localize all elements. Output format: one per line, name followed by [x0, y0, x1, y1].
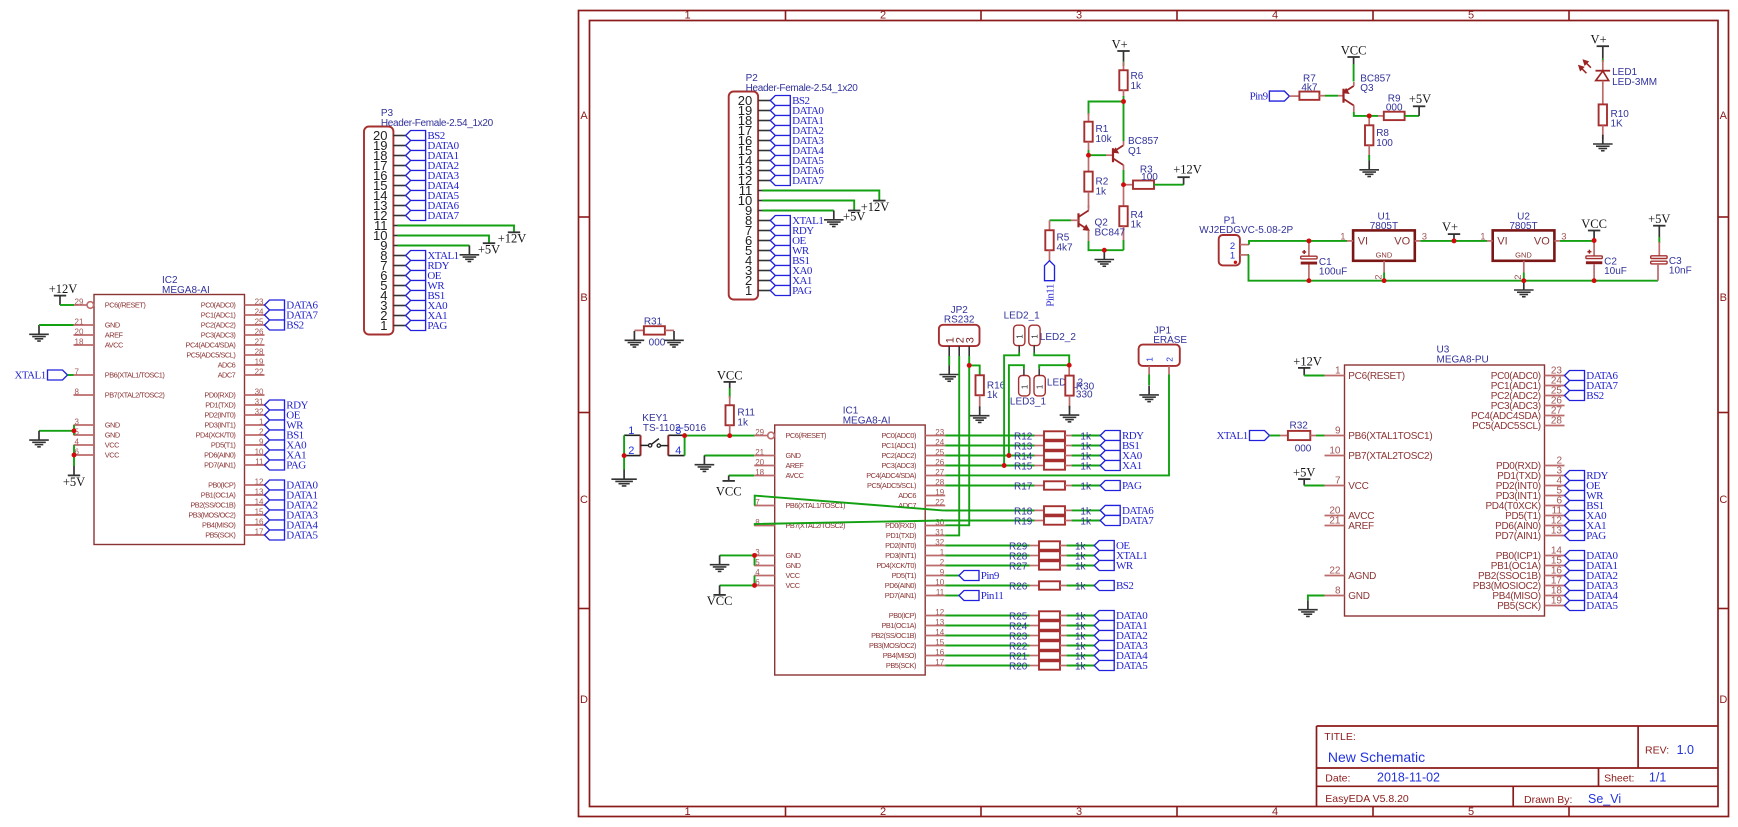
svg-text:2: 2 [940, 558, 945, 567]
wire R14 to flag [1072, 455, 1101, 457]
svg-text:PB4(MISO): PB4(MISO) [202, 521, 235, 530]
power V+ above LED1 [1591, 33, 1609, 59]
svg-text:14: 14 [255, 497, 264, 506]
power VCC above Q3 [1341, 43, 1367, 64]
svg-text:+5V: +5V [1648, 212, 1670, 226]
svg-text:VCC: VCC [1581, 217, 1607, 231]
svg-text:17: 17 [935, 658, 944, 667]
svg-text:PC4(ADC4/SDA): PC4(ADC4/SDA) [186, 341, 236, 350]
wire IC1 to R15 [945, 465, 1034, 467]
wire R15 to flag [1072, 465, 1101, 467]
power V+ at U1 output [1442, 220, 1460, 241]
net flag DATA6 [1565, 370, 1619, 382]
net flag Pin11 [959, 590, 1003, 602]
resistor R18 1k [1034, 506, 1071, 514]
svg-text:MEGA8-PU: MEGA8-PU [1437, 354, 1489, 365]
ground [710, 555, 730, 571]
svg-text:PD7(AIN1): PD7(AIN1) [885, 591, 916, 600]
svg-text:VCC: VCC [105, 451, 120, 460]
svg-text:1k: 1k [1075, 662, 1087, 673]
net flag RDY [770, 225, 814, 237]
power V+ above R6 [1112, 37, 1130, 61]
svg-text:20: 20 [75, 327, 84, 336]
svg-text:330: 330 [1076, 389, 1093, 400]
svg-text:5: 5 [755, 558, 760, 567]
resistor R7 4k7 [1299, 74, 1319, 100]
IC IC1 pins [754, 428, 945, 670]
wire IC1 PD7 to Pin11 flag [945, 595, 959, 597]
svg-text:PB1(OC1A): PB1(OC1A) [881, 621, 916, 630]
svg-text:1k: 1k [987, 390, 999, 401]
net flag DATA1 [1565, 560, 1618, 572]
wire IC1 to R26 [945, 585, 1029, 587]
resistor R13 1k [1034, 441, 1071, 449]
svg-text:VCC: VCC [716, 484, 742, 498]
svg-text:V+: V+ [1112, 37, 1128, 51]
wire KEY1 pins 3-4 right side [684, 435, 686, 455]
svg-text:PC0(ADC0): PC0(ADC0) [201, 301, 236, 310]
junction [1452, 238, 1457, 243]
wire +12V to IC2 pin 29 [60, 304, 74, 306]
svg-text:WR: WR [1116, 560, 1134, 572]
svg-text:28: 28 [1551, 416, 1563, 427]
junction [752, 553, 757, 558]
svg-text:19: 19 [1551, 596, 1563, 607]
ground [1359, 161, 1379, 177]
svg-text:AVCC: AVCC [105, 341, 124, 350]
resistor R17 1k [1034, 481, 1071, 489]
svg-text:ADC7: ADC7 [218, 371, 236, 380]
wire IC1 to R25 [945, 615, 1029, 617]
wire VCC to Q3 emitter [1353, 64, 1355, 82]
svg-text:GND: GND [1376, 250, 1393, 259]
svg-text:20: 20 [755, 458, 764, 467]
net flag DATA2 [406, 160, 459, 172]
junction [967, 363, 972, 368]
svg-text:D: D [1719, 694, 1727, 706]
wire R24 to flag [1067, 625, 1095, 627]
header LED2_1 [1004, 311, 1041, 353]
wire IC1 to R18 [945, 509, 1034, 511]
svg-text:9: 9 [940, 568, 945, 577]
svg-text:C: C [1719, 494, 1727, 506]
net flag DATA0 [406, 140, 460, 152]
ground [970, 406, 990, 422]
ground [1139, 386, 1159, 402]
svg-text:4k7: 4k7 [1301, 83, 1318, 94]
net flag OE [1094, 540, 1130, 552]
svg-text:DATA7: DATA7 [427, 210, 459, 222]
resistor R25 1k [1029, 611, 1066, 619]
svg-text:PD1(TXD): PD1(TXD) [205, 401, 235, 410]
ground [939, 365, 959, 381]
junction [622, 453, 627, 458]
svg-text:7: 7 [75, 367, 80, 376]
net flag BS2 [770, 95, 809, 107]
svg-text:4: 4 [1272, 10, 1278, 22]
net flag DATA5 [1565, 600, 1619, 612]
wire KEY1 to R11 junction to IC1 pin29 [685, 435, 755, 437]
net flag XA0 [770, 265, 813, 277]
wire IC2 pin21 to ground [39, 324, 74, 326]
svg-text:21: 21 [75, 317, 84, 326]
wire LED2_2 to R30 junction [1034, 353, 1069, 366]
resistor R21 1k [1029, 651, 1066, 659]
svg-text:3: 3 [675, 425, 681, 437]
net flag PAG [1100, 480, 1142, 492]
wire P1 pin1 to gnd rail [1249, 255, 1309, 281]
wire IC1 to R21 [945, 655, 1029, 657]
svg-text:+5V: +5V [63, 475, 85, 489]
net flag Pin9 [1250, 91, 1290, 103]
svg-text:R17: R17 [1014, 482, 1033, 493]
svg-text:VCC: VCC [717, 368, 743, 382]
ground [824, 211, 844, 227]
svg-text:28: 28 [935, 478, 944, 487]
svg-text:17: 17 [255, 527, 264, 536]
wire P2 pin9 to ground [762, 210, 834, 212]
resistor R4 1k [1119, 185, 1143, 240]
IC IC2 pins [74, 297, 265, 539]
wire IC2 pins 4/6 to +5V [73, 445, 75, 466]
svg-text:PB6(XTAL1/TOSC1): PB6(XTAL1/TOSC1) [105, 371, 165, 380]
wire V+ to R6 [1123, 61, 1125, 66]
connector P2 pins [738, 93, 771, 298]
svg-text:Date:: Date: [1325, 772, 1350, 784]
svg-text:PD7(AIN1): PD7(AIN1) [204, 461, 235, 470]
svg-text:+12V: +12V [1293, 354, 1322, 368]
svg-text:PB7(XTAL2TOSC2): PB7(XTAL2TOSC2) [1348, 451, 1432, 462]
junction [1067, 363, 1072, 368]
net flag BS2 [1565, 390, 1604, 402]
net flag BS2 [1094, 580, 1133, 592]
svg-text:R19: R19 [1014, 517, 1033, 528]
svg-text:3: 3 [1076, 806, 1082, 818]
svg-text:1/1: 1/1 [1649, 771, 1666, 785]
svg-text:7: 7 [1335, 476, 1341, 487]
svg-text:DATA5: DATA5 [1116, 660, 1148, 672]
svg-text:A: A [1720, 110, 1728, 122]
ground [29, 325, 49, 341]
svg-text:PC5(ADC5/SCL): PC5(ADC5/SCL) [867, 481, 916, 490]
svg-text:PB2(SS/OC1B): PB2(SS/OC1B) [190, 501, 235, 510]
svg-text:4: 4 [675, 445, 681, 457]
wire R12 to flag [1072, 435, 1101, 437]
power VCC above R11 [717, 368, 743, 388]
net flag OE [406, 270, 442, 282]
junction [72, 428, 77, 433]
net flag WR [1565, 490, 1605, 502]
svg-text:PD2(INT0): PD2(INT0) [204, 411, 235, 420]
svg-text:4k7: 4k7 [1057, 243, 1074, 254]
svg-text:Pin9: Pin9 [1250, 91, 1269, 103]
svg-text:XA1: XA1 [1122, 460, 1142, 472]
svg-text:1: 1 [745, 283, 752, 298]
wire U3 pin8 GND to ground [1308, 596, 1325, 601]
svg-text:1: 1 [1036, 384, 1045, 389]
IC IC1 MEGA8-AI body [775, 406, 926, 676]
ground [695, 455, 715, 471]
svg-text:PD2(INT0): PD2(INT0) [885, 541, 916, 550]
svg-text:22: 22 [935, 498, 944, 507]
svg-text:R15: R15 [1014, 462, 1033, 473]
svg-text:LED-3MM: LED-3MM [1612, 77, 1657, 88]
svg-text:+12V: +12V [1173, 162, 1202, 176]
wire R20 to flag [1067, 665, 1095, 667]
net flag DATA2 [1565, 570, 1618, 582]
svg-text:1k: 1k [1075, 582, 1087, 593]
net flag WR [406, 280, 446, 292]
wire IC1 pins 4/6 to VCC [754, 576, 756, 586]
wire P3 pin10 to +5V [398, 236, 490, 243]
svg-text:BS2: BS2 [1116, 580, 1133, 592]
svg-text:V+: V+ [1591, 33, 1607, 47]
svg-text:+12V: +12V [498, 232, 527, 246]
svg-text:2: 2 [628, 445, 634, 457]
resistor R27 1k [1029, 561, 1066, 569]
resistor R3 100 [1124, 165, 1159, 189]
header LED3_2 [1034, 369, 1083, 396]
svg-text:DATA7: DATA7 [1122, 515, 1154, 527]
net flag PAG [406, 320, 448, 332]
svg-text:Q1: Q1 [1128, 146, 1142, 157]
wire LED3_2 to R30 junction [1039, 365, 1069, 368]
junction [1006, 453, 1011, 458]
junction [1306, 238, 1311, 243]
svg-text:000: 000 [1295, 443, 1312, 454]
svg-text:D: D [580, 694, 588, 706]
wire R21 to flag [1067, 655, 1095, 657]
svg-text:PD6(AIN0): PD6(AIN0) [885, 581, 916, 590]
net flag RDY [265, 400, 309, 412]
ground [664, 331, 684, 347]
svg-text:PAG: PAG [1122, 480, 1142, 492]
wire IC1 to R14 [945, 455, 1034, 457]
svg-text:PD5(T1): PD5(T1) [211, 441, 235, 450]
wire IC1 pins 3/5 to ground [754, 556, 756, 566]
svg-text:10k: 10k [1096, 134, 1113, 145]
resistor R6 1k [1119, 62, 1143, 97]
svg-text:32: 32 [935, 538, 944, 547]
net flag DATA0 [1565, 550, 1619, 562]
net flag RDY [406, 260, 450, 272]
ground [625, 331, 645, 347]
svg-text:VCC: VCC [786, 581, 801, 590]
svg-text:1k: 1k [1080, 517, 1092, 528]
svg-text:PAG: PAG [286, 460, 306, 472]
net flag Pin9 [959, 570, 1000, 582]
svg-text:PB0(ICP): PB0(ICP) [889, 611, 916, 620]
wire +12V to U3 pin1 [1304, 375, 1324, 377]
net flag XTAL1 [770, 215, 823, 227]
svg-text:Pin9: Pin9 [981, 570, 1000, 582]
svg-text:DATA7: DATA7 [792, 175, 824, 187]
wire U2 VO to VCC node [1560, 240, 1594, 242]
svg-text:WJ2EDGVC-5.08-2P: WJ2EDGVC-5.08-2P [1199, 225, 1293, 236]
power +5V at P3 [478, 242, 500, 256]
net flag PAG [1565, 530, 1607, 542]
junction [1086, 153, 1091, 158]
net flag XTAL1 [14, 370, 67, 382]
wire IC1 pin7 to R18 row (diagonal) [755, 496, 1035, 511]
power +12V at IC2 pin 29 [49, 282, 78, 305]
svg-text:PB5(SCK): PB5(SCK) [205, 531, 235, 540]
wire IC1 PD5 to Pin9 flag [945, 575, 959, 577]
net flag XTAL1 [1094, 550, 1147, 562]
resistor R28 1k [1029, 551, 1066, 559]
svg-text:27: 27 [935, 468, 944, 477]
svg-text:VCC: VCC [1341, 43, 1367, 57]
power VCC below IC1 pins 4/6 [707, 585, 733, 608]
svg-text:14: 14 [935, 628, 944, 637]
wire IC1 to R12 [945, 435, 1034, 437]
svg-text:2: 2 [1165, 357, 1175, 362]
junction [1121, 182, 1126, 187]
resistor R16 1k [976, 375, 1006, 407]
connector P1 WJ2EDGVC-5.08-2P [1199, 215, 1293, 265]
svg-text:XTAL1: XTAL1 [1216, 430, 1247, 442]
svg-text:Q3: Q3 [1360, 83, 1374, 94]
ground [1095, 250, 1115, 266]
svg-text:Se_Vi: Se_Vi [1588, 792, 1621, 806]
svg-text:22: 22 [255, 367, 264, 376]
svg-text:23: 23 [255, 297, 264, 306]
svg-text:+5V: +5V [843, 210, 865, 224]
net flag BS1 [1100, 440, 1139, 452]
svg-text:Sheet:: Sheet: [1604, 772, 1634, 784]
wire R17 to flag [1072, 485, 1101, 487]
resistor R26 1k [1029, 581, 1066, 589]
svg-text:4: 4 [75, 437, 80, 446]
resistor R10 1K [1599, 81, 1630, 139]
junction [682, 433, 687, 438]
svg-text:C: C [580, 494, 588, 506]
wire R7 to Q3 base [1319, 95, 1325, 97]
wire R28 to flag [1067, 555, 1095, 557]
wire JP1 pin1 to ground [1148, 375, 1150, 386]
net flag DATA6 [1100, 505, 1154, 517]
resistor R12 1k [1034, 431, 1071, 439]
svg-text:8: 8 [1335, 586, 1341, 597]
power +12V at U3 pin1 [1293, 354, 1322, 375]
resistor R19 1k [1034, 516, 1071, 524]
svg-text:23: 23 [935, 428, 944, 437]
net flag PAG [265, 460, 307, 472]
net flag WR [265, 420, 305, 432]
power +12V at P3 [498, 232, 527, 246]
wire U2 pin2 to rail [1523, 273, 1525, 281]
svg-text:12: 12 [935, 608, 944, 617]
resistor R11 1k [726, 396, 756, 436]
svg-text:1K: 1K [1611, 118, 1624, 129]
svg-text:PC1(ADC1): PC1(ADC1) [201, 311, 236, 320]
wire R19 to flag [1072, 520, 1101, 522]
svg-text:DATA5: DATA5 [286, 530, 318, 542]
wire +5V to U3 pin7 [1304, 485, 1324, 487]
svg-text:9: 9 [259, 437, 264, 446]
ground [1593, 135, 1613, 151]
svg-text:100uF: 100uF [1319, 266, 1347, 277]
svg-text:R26: R26 [1009, 582, 1028, 593]
resistor R22 1k [1029, 641, 1066, 649]
net flag BS1 [265, 430, 304, 442]
svg-text:B: B [580, 292, 587, 304]
wire R13 to flag [1072, 445, 1101, 447]
power +5V below IC2 [63, 466, 85, 489]
net flag XA0 [1565, 510, 1608, 522]
net flag DATA2 [770, 125, 823, 137]
svg-text:13: 13 [1551, 526, 1563, 537]
power +5V at U3 pin7 [1293, 466, 1315, 486]
wire U1 pin2 to rail [1383, 273, 1385, 281]
net flag DATA7 [1100, 515, 1154, 527]
wire R29 to flag [1067, 545, 1095, 547]
net flag RDY [1100, 430, 1144, 442]
net flag DATA0 [265, 480, 319, 492]
net flag OE [1565, 480, 1601, 492]
net flag XA1 [1565, 520, 1607, 532]
svg-text:4: 4 [1272, 806, 1278, 818]
svg-text:PD6(AIN0): PD6(AIN0) [204, 451, 235, 460]
svg-text:1k: 1k [1096, 186, 1108, 197]
net flag DATA7 [406, 210, 460, 222]
junction [72, 453, 77, 458]
svg-text:PC3(ADC3): PC3(ADC3) [881, 461, 916, 470]
svg-text:15: 15 [935, 638, 944, 647]
net flag OE [265, 410, 301, 422]
net flag WR [770, 245, 810, 257]
svg-text:DATA5: DATA5 [1586, 600, 1618, 612]
junction [1592, 278, 1597, 283]
power VCC at U2 output [1581, 217, 1607, 240]
svg-text:GND: GND [105, 421, 120, 430]
svg-text:10: 10 [1329, 446, 1341, 457]
svg-text:PC6(/RESET): PC6(/RESET) [786, 431, 827, 440]
header LED2_2 [1029, 325, 1077, 352]
svg-text:PC6(RESET): PC6(RESET) [1348, 371, 1404, 382]
net flag XA1 [406, 310, 448, 322]
wire R26 to flag [1067, 585, 1095, 587]
svg-text:GND: GND [1515, 250, 1532, 259]
svg-text:3: 3 [1076, 10, 1082, 22]
svg-text:28: 28 [255, 347, 264, 356]
svg-text:000: 000 [649, 337, 666, 348]
svg-text:10nF: 10nF [1669, 266, 1692, 277]
svg-text:PC5(ADC5SCL): PC5(ADC5SCL) [1472, 421, 1541, 432]
junction [1002, 463, 1007, 468]
transistor Q1 BC857 PNP [1106, 136, 1159, 165]
svg-text:PB7(XTAL2/TOSC2): PB7(XTAL2/TOSC2) [105, 391, 165, 400]
junction [1306, 278, 1311, 283]
net flag DATA4 [770, 145, 824, 157]
net flag XTAL1 [406, 250, 459, 262]
svg-text:11: 11 [255, 457, 264, 466]
svg-text:BS2: BS2 [1586, 390, 1603, 402]
wire JP2 pin2 down to IC1 PD1 [945, 356, 959, 535]
resistor R31 000 [634, 316, 674, 348]
svg-text:GND: GND [105, 321, 120, 330]
svg-text:7805T: 7805T [1509, 221, 1537, 232]
svg-text:24: 24 [255, 307, 264, 316]
svg-text:1: 1 [1340, 232, 1345, 243]
net flag DATA5 [406, 190, 460, 202]
svg-text:7805T: 7805T [1370, 221, 1398, 232]
svg-text:000: 000 [1386, 102, 1403, 113]
svg-text:PC1(ADC1): PC1(ADC1) [881, 441, 916, 450]
svg-text:5: 5 [1468, 806, 1474, 818]
net flag XA1 [265, 450, 307, 462]
svg-text:32: 32 [255, 407, 264, 416]
